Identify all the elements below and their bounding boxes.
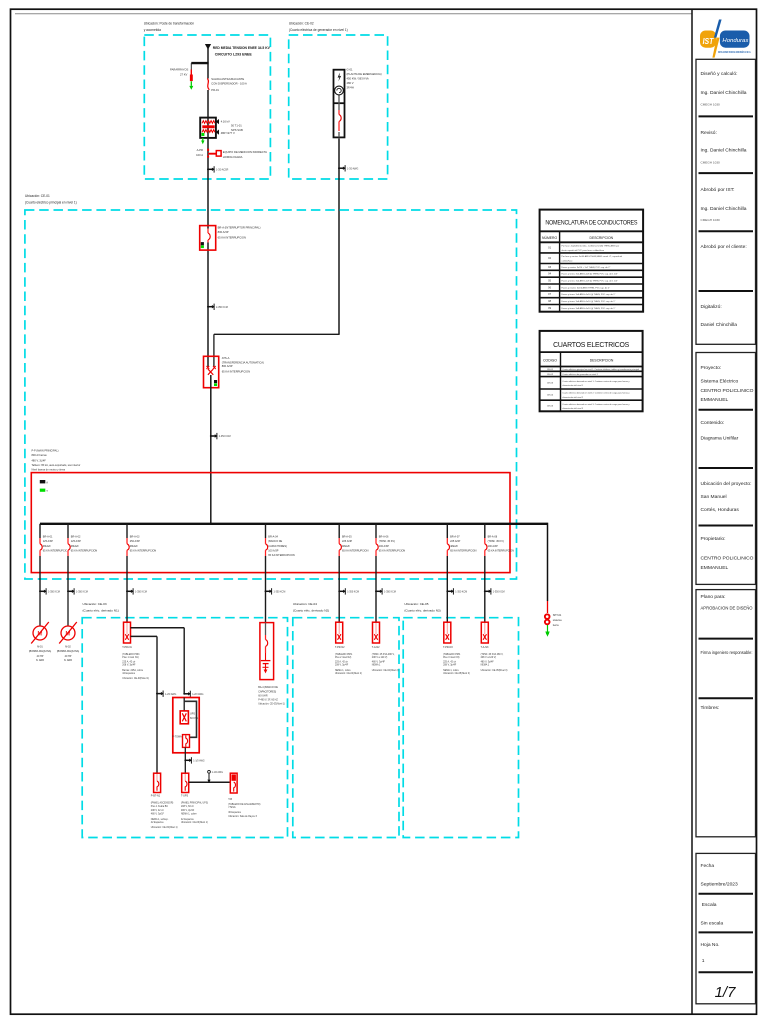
svg-text:Ing. Daniel Chinchilla: Ing. Daniel Chinchilla [701, 147, 747, 153]
svg-text:IST: IST [703, 37, 715, 46]
svg-text:EMMANUEL: EMMANUEL [701, 565, 729, 571]
svg-text:225 A, 42 cir: 225 A, 42 cir [443, 660, 456, 663]
svg-text:G-01: G-01 [347, 67, 353, 71]
svg-text:CE-02: CE-02 [547, 374, 554, 376]
svg-text:T-B: T-B [228, 798, 232, 801]
svg-text:1-3/0 ACSR: 1-3/0 ACSR [216, 169, 229, 172]
svg-text:ducto superficial PVC para fas: ducto superficial PVC para fases calibre… [562, 249, 605, 252]
svg-text:60 KVA: 60 KVA [190, 717, 198, 720]
svg-text:Ubicación: CE-02: Ubicación: CE-02 [289, 22, 314, 26]
svg-text:65 KA INTERRUPCION: 65 KA INTERRUPCION [450, 549, 477, 552]
svg-text:450 KW / 563 KVA: 450 KW / 563 KVA [347, 76, 369, 80]
svg-text:PR-01: PR-01 [211, 88, 219, 92]
svg-text:2-350 KCM: 2-350 KCM [219, 436, 231, 438]
svg-text:208 V, 42 cir: 208 V, 42 cir [151, 809, 164, 812]
svg-text:100 A/3P: 100 A/3P [268, 549, 278, 552]
svg-text:Fecha: Fecha [701, 863, 715, 869]
svg-text:65 KA INTERRUPCION: 65 KA INTERRUPCION [130, 549, 157, 552]
svg-text:CMEGH 1030: CMEGH 1030 [701, 103, 721, 107]
svg-text:Sistema Eléctrico: Sistema Eléctrico [701, 378, 739, 384]
svg-text:CODIGO: CODIGO [543, 358, 557, 362]
svg-text:CAPACITORES): CAPACITORES) [258, 691, 276, 694]
svg-text:40 HP: 40 HP [37, 655, 44, 658]
svg-text:100 A/3P: 100 A/3P [379, 545, 389, 548]
svg-text:Sin escala: Sin escala [701, 921, 724, 927]
svg-text:NEMA 1, cobre: NEMA 1, cobre [443, 669, 459, 672]
svg-text:Cuarto eléctrico de generador: Cuarto eléctrico de generador en nivel 1 [562, 373, 598, 376]
svg-text:(Cuarto eléctrico principal en: (Cuarto eléctrico principal en nivel 1) [25, 201, 77, 205]
svg-text:48kA/F: 48kA/F [71, 545, 79, 548]
svg-text:Ubicación: Sala de Rayos X: Ubicación: Sala de Rayos X [228, 816, 257, 818]
svg-text:Honduras: Honduras [722, 38, 748, 44]
svg-text:Digitalizó:: Digitalizó: [701, 304, 722, 310]
svg-text:Piso 2 nivel N2): Piso 2 nivel N2) [335, 657, 352, 659]
svg-text:480Y/277 V: 480Y/277 V [221, 131, 235, 135]
svg-text:Ubicación: CE-03(Nivel 1): Ubicación: CE-03(Nivel 1) [258, 704, 285, 706]
svg-text:Piso 3 nivel N3): Piso 3 nivel N3) [443, 657, 460, 659]
svg-text:1-1/0 AWG: 1-1/0 AWG [193, 760, 204, 763]
svg-text:Ubicación: CE-05(Nivel 3): Ubicación: CE-05(Nivel 3) [443, 673, 470, 675]
svg-text:Escala: Escala [702, 902, 717, 908]
svg-text:(Cuarto eléc. derivado N1): (Cuarto eléc. derivado N1) [83, 608, 119, 612]
svg-text:Ubicación: CE-04(Nivel 2): Ubicación: CE-04(Nivel 2) [335, 673, 362, 675]
svg-text:208 V a 120 V): 208 V a 120 V) [481, 657, 497, 659]
svg-text:Nivel barras de neutro y tierr: Nivel barras de neutro y tierra [32, 468, 66, 472]
svg-text:CE-05: CE-05 [547, 406, 554, 408]
svg-text:208 V, 60 cir: 208 V, 60 cir [181, 805, 194, 808]
svg-text:48kA/F: 48kA/F [342, 545, 350, 548]
svg-text:calibre/fase: calibre/fase [562, 260, 574, 262]
svg-text:65 KA INTERRUPCION: 65 KA INTERRUPCION [488, 549, 515, 552]
svg-text:Cortés, Honduras: Cortés, Honduras [701, 507, 740, 513]
svg-text:225 A/3P: 225 A/3P [342, 540, 352, 543]
svg-text:100 A: 100 A [196, 153, 203, 157]
svg-text:208 V a 120 V): 208 V a 120 V) [372, 657, 388, 659]
svg-text:Ubicación: CE-05(Nivel 3): Ubicación: CE-05(Nivel 3) [481, 670, 508, 672]
svg-text:(PANEL ASCENSOR): (PANEL ASCENSOR) [151, 802, 174, 805]
svg-text:APROBACION DE DISEÑO: APROBACION DE DISEÑO [701, 604, 753, 610]
svg-text:(PANEL PRINCIPAL UPS): (PANEL PRINCIPAL UPS) [181, 802, 208, 805]
svg-text:1-350 KCM: 1-350 KCM [48, 592, 60, 594]
svg-text:208 V, 3p/4F: 208 V, 3p/4F [443, 665, 457, 667]
svg-text:125 A/3P: 125 A/3P [71, 540, 81, 543]
svg-text:P-TOMA: P-TOMA [172, 736, 182, 739]
svg-text:CON DISPERSADOR - 100 A: CON DISPERSADOR - 100 A [211, 82, 247, 86]
svg-text:Fases y neutro: 3x1/0 AWG THHN: Fases y neutro: 3x1/0 AWG THHN, PVC sup.… [562, 286, 611, 289]
svg-text:65 KA INTERRUPCION: 65 KA INTERRUPCION [43, 549, 70, 552]
svg-text:1-2/0 AWG: 1-2/0 AWG [165, 693, 176, 696]
svg-text:(TRSF. 45 KVA 480 V,: (TRSF. 45 KVA 480 V, [372, 653, 395, 656]
svg-text:Propietario:: Propietario: [701, 536, 726, 542]
svg-text:1-350 KCM: 1-350 KCM [135, 592, 147, 594]
svg-text:alimentación del nivel 1: alimentación del nivel 1 [562, 384, 584, 387]
svg-text:CIRCUITO L293 ENEE: CIRCUITO L293 ENEE [215, 53, 253, 57]
svg-text:M-01: M-01 [37, 645, 43, 648]
svg-text:BR-A-02: BR-A-02 [71, 536, 81, 539]
svg-text:RED MEDIA TENSION ENEE 34.5 KV: RED MEDIA TENSION ENEE 34.5 KV [213, 46, 271, 50]
svg-text:(TABLERO PRN.: (TABLERO PRN. [443, 653, 461, 656]
svg-text:480 V, 3p/1F: 480 V, 3p/1F [151, 813, 165, 815]
svg-text:Ubicación del proyecto:: Ubicación del proyecto: [701, 481, 752, 486]
svg-text:NEMA 1, cobre: NEMA 1, cobre [335, 669, 351, 672]
svg-text:Ubicación: CE-03: Ubicación: CE-03 [83, 602, 107, 606]
svg-text:Plano para:: Plano para: [701, 594, 726, 600]
svg-text:Septiembre/2023: Septiembre/2023 [701, 882, 739, 888]
svg-text:Por fase y neutro: 3x4/0 AWG T: Por fase y neutro: 3x4/0 AWG THHN, AWG c… [562, 255, 623, 258]
svg-text:NEMA 1: NEMA 1 [372, 664, 381, 667]
svg-text:BR-A (INTERRUPTOR PRINCIPAL): BR-A (INTERRUPTOR PRINCIPAL) [218, 226, 261, 230]
svg-text:Revisó:: Revisó: [701, 130, 717, 136]
svg-text:T-PR-N2: T-PR-N2 [335, 646, 345, 649]
svg-text:(TABLERO PRN.: (TABLERO PRN. [122, 653, 140, 656]
svg-text:65 KA INTERRUPCION: 65 KA INTERRUPCION [268, 554, 295, 557]
svg-text:Fases y tierra: 3x8 AWG+1x10 (: Fases y tierra: 3x8 AWG+1x10 (t) THHN, P… [562, 307, 616, 310]
svg-text:CUARTOS ELECTRICOS: CUARTOS ELECTRICOS [553, 342, 630, 349]
svg-text:Timbres:: Timbres: [701, 705, 720, 711]
svg-text:Tablero: 65 kA, auto-soportado: Tablero: 65 kA, auto-soportado, uso inte… [32, 463, 81, 467]
svg-text:NEMA 1: NEMA 1 [481, 664, 490, 667]
svg-text:Diseñó y calculó:: Diseñó y calculó: [701, 71, 738, 77]
svg-text:42 Espacios: 42 Espacios [181, 819, 195, 821]
svg-text:Piso 1 nivel N1): Piso 1 nivel N1) [122, 657, 139, 659]
svg-text:(PLANTA DE EMERGENCIA): (PLANTA DE EMERGENCIA) [347, 72, 382, 76]
svg-text:Ubicación: CE-03(Nivel 1): Ubicación: CE-03(Nivel 1) [181, 822, 208, 824]
svg-text:125 A/3P: 125 A/3P [43, 540, 53, 543]
svg-text:(BOMBA MAQUINA): (BOMBA MAQUINA) [29, 650, 52, 653]
svg-text:3F/4H: 3F/4H [347, 85, 354, 89]
svg-text:Fases y tierra: 3x2 AWG+1x8 (t: Fases y tierra: 3x2 AWG+1x8 (t) THHN, PV… [562, 273, 618, 276]
svg-text:BR-A-01: BR-A-01 [43, 536, 53, 539]
svg-text:40 HP: 40 HP [65, 655, 72, 658]
svg-text:CMEGH 1030: CMEGH 1030 [701, 160, 721, 164]
svg-text:48kA/F: 48kA/F [130, 545, 138, 548]
svg-text:Ubicación: CE-03(Nivel 1): Ubicación: CE-03(Nivel 1) [151, 827, 178, 829]
svg-text:480 V: 480 V [347, 81, 354, 85]
svg-text:Fases y tierra: 3x6 AWG+1x10 (: Fases y tierra: 3x6 AWG+1x10 (t) THHN, P… [562, 300, 616, 303]
svg-text:SPT-01: SPT-01 [553, 613, 562, 617]
svg-text:CE-04: CE-04 [547, 395, 554, 397]
svg-text:T-A-N3: T-A-N3 [481, 646, 489, 649]
svg-text:1-350 KCM: 1-350 KCM [493, 592, 505, 594]
svg-text:4.16 kV: 4.16 kV [221, 120, 230, 124]
svg-text:1-350 KCM: 1-350 KCM [76, 592, 88, 594]
svg-text:(TRSF. 45 KVA 480 V,: (TRSF. 45 KVA 480 V, [481, 653, 504, 656]
svg-text:Contenido:: Contenido: [701, 420, 725, 426]
svg-text:1-3/0 AWG: 1-3/0 AWG [347, 167, 358, 170]
svg-text:BR-A-06: BR-A-06 [379, 536, 389, 539]
svg-text:P-480 V, 3F, 60 HZ: P-480 V, 3F, 60 HZ [258, 699, 278, 701]
svg-text:NEMA 1, cobre: NEMA 1, cobre [181, 812, 197, 815]
svg-text:HOMOLOGADA: HOMOLOGADA [223, 155, 243, 159]
svg-text:225 A, 42 cir: 225 A, 42 cir [122, 660, 135, 663]
svg-text:7.5kVA: 7.5kVA [228, 806, 236, 809]
svg-text:(Cuarto eléc. derivado N2): (Cuarto eléc. derivado N2) [293, 608, 329, 612]
svg-text:BA-4 (BANCO DE: BA-4 (BANCO DE [258, 686, 278, 689]
svg-text:tierra: tierra [553, 623, 559, 627]
svg-text:Cuarto eléctrico derivado en n: Cuarto eléctrico derivado en nivel 1. Co… [562, 380, 629, 383]
svg-text:1-350 KCM: 1-350 KCM [347, 592, 359, 594]
svg-text:208 V, 3p/4F: 208 V, 3p/4F [122, 665, 136, 667]
svg-text:N. ARR: N. ARR [36, 659, 44, 662]
svg-text:Abrobó por el cliente:: Abrobó por el cliente: [701, 244, 747, 250]
svg-text:CENTRO POLICLINICO: CENTRO POLICLINICO [701, 388, 754, 394]
svg-text:480 V, 3p/4F: 480 V, 3p/4F [372, 661, 386, 663]
svg-text:CE-03: CE-03 [547, 383, 554, 385]
svg-text:BR-A-08: BR-A-08 [488, 536, 498, 539]
svg-text:Por fase: 4x(4x350 kcmil) + 1x: Por fase: 4x(4x350 kcmil) + 1x350 kcmil … [562, 245, 620, 248]
svg-text:DESCRIPCION: DESCRIPCION [590, 236, 614, 240]
svg-text:480 V, 3L/4F: 480 V, 3L/4F [32, 459, 47, 463]
svg-text:Cuarto eléctrico derivado en n: Cuarto eléctrico derivado en nivel 3. Co… [562, 403, 629, 406]
svg-text:(TRANSFERENCIA AUTOMATICA): (TRANSFERENCIA AUTOMATICA) [222, 360, 264, 364]
svg-text:(TRSF. 45 KV): (TRSF. 45 KV) [488, 540, 504, 543]
svg-text:(TABLERO DE AISLAMIENTO): (TABLERO DE AISLAMIENTO) [228, 803, 260, 806]
svg-text:Cuarto eléctrico principal en: Cuarto eléctrico principal en nivel 1. C… [562, 368, 639, 371]
svg-text:(BOMBA MAQUINA): (BOMBA MAQUINA) [57, 650, 80, 653]
svg-text:800 A/ barras: 800 A/ barras [32, 453, 48, 457]
svg-text:A-PR: A-PR [197, 148, 203, 152]
svg-text:Ubicación: CE-05: Ubicación: CE-05 [404, 602, 428, 606]
svg-text:BR-A-07: BR-A-07 [450, 536, 460, 539]
svg-text:San Manuel: San Manuel [701, 494, 727, 500]
svg-text:1-1/0 AWG: 1-1/0 AWG [212, 771, 223, 774]
svg-text:65 KA INTERRUPCION: 65 KA INTERRUPCION [342, 549, 369, 552]
svg-text:65 KA INTERRUPCION: 65 KA INTERRUPCION [222, 369, 250, 373]
svg-text:CMEGH 1030: CMEGH 1030 [701, 218, 721, 222]
svg-text:Fases y neutro: 3x2/0 + 1x2 TH: Fases y neutro: 3x2/0 + 1x2 THHN, PVC su… [562, 266, 611, 269]
svg-text:(TABLERO PRN.: (TABLERO PRN. [335, 653, 353, 656]
svg-text:BR-A-04: BR-A-04 [268, 536, 278, 539]
svg-text:P-P (MAIN PRINCIPAL): P-P (MAIN PRINCIPAL) [32, 449, 59, 453]
svg-text:SALIDA ANTIHURACANTE: SALIDA ANTIHURACANTE [211, 77, 244, 81]
svg-text:CENTRO POLICLINICO: CENTRO POLICLINICO [701, 556, 754, 562]
svg-text:Ubicación: CE-04: Ubicación: CE-04 [293, 602, 317, 606]
svg-text:1-350 KCM: 1-350 KCM [274, 592, 286, 594]
svg-text:Ubicación: CE-03(Nivel 1): Ubicación: CE-03(Nivel 1) [122, 678, 149, 680]
svg-text:225 A, 42 cir: 225 A, 42 cir [335, 660, 348, 663]
svg-text:Ubicación: CE-04(Nivel 2): Ubicación: CE-04(Nivel 2) [372, 670, 399, 672]
svg-text:EMMANUEL: EMMANUEL [701, 397, 729, 403]
svg-text:Ubicación: CE-01: Ubicación: CE-01 [25, 194, 50, 198]
svg-text:M-02: M-02 [65, 645, 71, 648]
svg-text:48kA/F: 48kA/F [43, 545, 51, 548]
svg-text:T-PR-N3: T-PR-N3 [443, 646, 453, 649]
svg-text:100 A/3P: 100 A/3P [488, 545, 498, 548]
svg-text:42 Espacios: 42 Espacios [122, 673, 136, 675]
svg-text:PARARRAYOS: PARARRAYOS [170, 68, 188, 72]
svg-text:50 T1-01: 50 T1-01 [231, 124, 242, 128]
svg-text:BR-A-03: BR-A-03 [130, 536, 140, 539]
svg-text:(Cuarto eléc. derivado N3): (Cuarto eléc. derivado N3) [404, 608, 440, 612]
svg-text:ATS-A: ATS-A [222, 356, 230, 360]
svg-text:Ing. Daniel Chinchilla: Ing. Daniel Chinchilla [701, 206, 747, 212]
svg-text:NÚMERO: NÚMERO [542, 235, 557, 240]
svg-text:2-350 KCM: 2-350 KCM [216, 307, 228, 309]
svg-text:Fases y tierra: 3x4 AWG+1x8 (t: Fases y tierra: 3x4 AWG+1x8 (t) THHN, PV… [562, 280, 618, 283]
svg-text:Ubicación: Poste de transforma: Ubicación: Poste de transformación [144, 22, 195, 26]
svg-text:48kA/F: 48kA/F [450, 545, 458, 548]
svg-text:65 KA INTERRUPCION: 65 KA INTERRUPCION [218, 236, 246, 240]
svg-text:250 A/3P: 250 A/3P [130, 540, 140, 543]
svg-text:Abrobó por IST:: Abrobó por IST: [701, 187, 735, 193]
svg-text:BR-A-05: BR-A-05 [342, 536, 352, 539]
svg-text:T-UPS: T-UPS [181, 795, 189, 798]
svg-text:1-2/0 AWG: 1-2/0 AWG [192, 693, 203, 696]
svg-text:800 A/3P: 800 A/3P [222, 364, 233, 368]
svg-text:Barras: 225A, cobre: Barras: 225A, cobre [122, 669, 143, 672]
svg-text:(Cuarto eléctrica de generador: (Cuarto eléctrica de generador en nivel … [289, 28, 348, 32]
svg-text:UPS: UPS [190, 713, 195, 716]
svg-text:N. ARR: N. ARR [64, 659, 72, 662]
svg-text:CE-01: CE-01 [547, 369, 554, 371]
svg-text:DESCRIPCION: DESCRIPCION [590, 358, 614, 362]
svg-text:(TRSF. 45 KV): (TRSF. 45 KV) [379, 540, 395, 543]
svg-text:30 Espacios: 30 Espacios [228, 812, 242, 814]
svg-text:1-350 KCM: 1-350 KCM [455, 592, 467, 594]
svg-text:Hoja No.: Hoja No. [701, 942, 720, 948]
svg-text:480 V, 3p/4F: 480 V, 3p/4F [481, 661, 495, 663]
svg-text:1/7: 1/7 [715, 984, 737, 1001]
svg-text:Proyecto:: Proyecto: [701, 365, 722, 371]
svg-text:Firma ingeniero responsable:: Firma ingeniero responsable: [701, 650, 753, 655]
svg-text:y acometida: y acometida [144, 28, 161, 32]
svg-text:1: 1 [702, 958, 705, 964]
svg-text:A: A [46, 480, 48, 484]
svg-text:EQUIPO DE MEDICION INDIRECTA: EQUIPO DE MEDICION INDIRECTA [223, 150, 267, 154]
svg-text:Diagrama Unifilar: Diagrama Unifilar [701, 436, 739, 442]
svg-text:T-PR-N1: T-PR-N1 [122, 646, 132, 649]
svg-text:NEMA 1, sobrep.: NEMA 1, sobrep. [151, 818, 169, 821]
svg-text:60 KVAR: 60 KVAR [258, 694, 268, 697]
svg-text:alimentación del nivel 2: alimentación del nivel 2 [562, 396, 584, 399]
svg-text:CAPACITORES): CAPACITORES) [268, 545, 287, 548]
svg-text:27 KV: 27 KV [180, 73, 188, 77]
svg-text:P-BT-N1: P-BT-N1 [151, 795, 161, 798]
svg-text:Fases y tierra: 3x6 AWG+1x10 (: Fases y tierra: 3x6 AWG+1x10 (t) THHN, P… [562, 293, 616, 296]
svg-text:Daniel Chinchilla: Daniel Chinchilla [701, 322, 738, 328]
svg-text:NOMENCLATURA DE CONDUCTORES: NOMENCLATURA DE CONDUCTORES [545, 220, 637, 227]
svg-text:42 Espacios: 42 Espacios [151, 822, 165, 824]
svg-text:Ing. Daniel Chinchilla: Ing. Daniel Chinchilla [701, 90, 747, 96]
svg-text:T-A-N2: T-A-N2 [372, 646, 380, 649]
svg-text:sistema: sistema [553, 618, 562, 622]
svg-text:208 V, 3p/4F: 208 V, 3p/4F [335, 665, 349, 667]
svg-text:alimentación del nivel 3: alimentación del nivel 3 [562, 407, 584, 410]
svg-text:800 A/3P: 800 A/3P [218, 230, 229, 234]
svg-text:65 KA INTERRUPCION: 65 KA INTERRUPCION [71, 549, 98, 552]
svg-text:65 KA INTERRUPCION: 65 KA INTERRUPCION [379, 549, 406, 552]
svg-text:(BANCO DE: (BANCO DE [268, 540, 282, 543]
svg-text:Cuarto eléctrico derivado en n: Cuarto eléctrico derivado en nivel 2. Co… [562, 392, 629, 395]
svg-text:1-350 KCM: 1-350 KCM [384, 592, 396, 594]
svg-text:Piso 1 N-alta BC: Piso 1 N-alta BC [151, 805, 169, 808]
svg-text:480 V, 3p/4F: 480 V, 3p/4F [181, 810, 195, 812]
svg-text:225 A/3P: 225 A/3P [450, 540, 460, 543]
